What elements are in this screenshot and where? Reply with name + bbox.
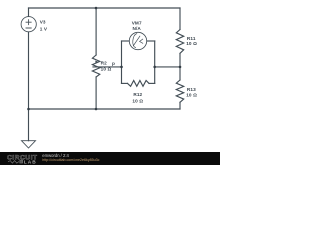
svg-text:10 Ω: 10 Ω — [186, 92, 197, 97]
svg-text:10 Ω: 10 Ω — [186, 41, 197, 46]
svg-text:10 Ω: 10 Ω — [132, 99, 143, 104]
svg-text:emwordn / 2:4: emwordn / 2:4 — [42, 153, 69, 158]
svg-text:R2: R2 — [101, 60, 108, 65]
svg-text:http://circuitlab.com/cne2e6ky: http://circuitlab.com/cne2e6ky85u3c — [42, 158, 99, 162]
svg-text:1 V: 1 V — [40, 27, 48, 32]
svg-text:LAB: LAB — [24, 159, 37, 165]
svg-text:R12: R12 — [133, 92, 142, 97]
svg-text:VM7: VM7 — [132, 20, 142, 25]
svg-text:N/A: N/A — [132, 26, 141, 31]
svg-text:V3: V3 — [40, 20, 46, 25]
svg-text:p: p — [112, 61, 115, 66]
svg-text:10 Ω: 10 Ω — [101, 67, 112, 72]
